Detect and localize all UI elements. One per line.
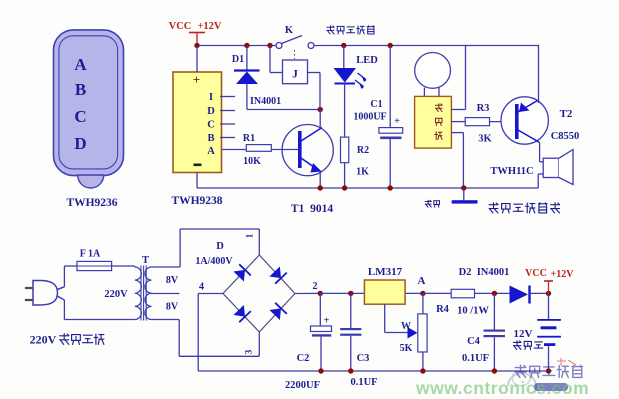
svg-text:C4: C4 <box>467 336 481 347</box>
svg-text:10K: 10K <box>243 156 261 167</box>
svg-text:D1: D1 <box>232 54 244 65</box>
svg-text:+: + <box>193 72 200 87</box>
svg-text:J: J <box>292 69 298 81</box>
svg-text:3: 3 <box>244 349 254 354</box>
svg-text:C: C <box>207 120 215 131</box>
svg-text:+: + <box>394 116 400 127</box>
svg-text:D2 IN4001: D2 IN4001 <box>459 267 510 278</box>
svg-text:B: B <box>207 133 214 144</box>
svg-text:5K: 5K <box>400 343 413 354</box>
svg-text:T2: T2 <box>560 108 573 120</box>
svg-text:K: K <box>285 25 294 36</box>
svg-text:LED: LED <box>356 55 378 66</box>
svg-text:8V: 8V <box>166 302 179 313</box>
svg-text:LM317: LM317 <box>368 266 403 278</box>
svg-text:B: B <box>75 80 86 99</box>
svg-text:12V: 12V <box>514 328 533 340</box>
svg-text:0.1UF: 0.1UF <box>462 353 489 364</box>
svg-text:8V: 8V <box>166 275 179 286</box>
svg-text:www.cntronics.com: www.cntronics.com <box>415 378 589 398</box>
svg-text:R1: R1 <box>243 133 255 144</box>
svg-text:2: 2 <box>313 281 318 292</box>
svg-text:C8550: C8550 <box>551 131 580 142</box>
svg-text:A: A <box>207 146 215 157</box>
svg-text:10 /1W: 10 /1W <box>457 306 489 317</box>
svg-text:A: A <box>74 55 87 74</box>
svg-text:VCC: VCC <box>525 268 547 279</box>
svg-text:+: + <box>324 316 330 327</box>
svg-text:TWH9236: TWH9236 <box>66 197 117 209</box>
svg-text:A: A <box>418 275 426 287</box>
svg-text:+12V: +12V <box>551 269 575 280</box>
svg-text:IN4001: IN4001 <box>250 96 281 107</box>
svg-text:2200UF: 2200UF <box>285 380 320 391</box>
svg-text:D: D <box>216 241 224 252</box>
svg-text:+12V: +12V <box>197 21 221 32</box>
svg-text:4: 4 <box>199 282 204 293</box>
svg-text:C2: C2 <box>297 353 310 364</box>
svg-text:1A/400V: 1A/400V <box>195 256 233 267</box>
svg-text:T: T <box>142 255 149 266</box>
svg-text:220V: 220V <box>104 289 128 300</box>
svg-text:C: C <box>74 107 86 126</box>
svg-text:F 1A: F 1A <box>80 249 101 260</box>
svg-text:0.1UF: 0.1UF <box>350 377 377 388</box>
svg-text:TWH9238: TWH9238 <box>171 195 222 207</box>
svg-text:VCC: VCC <box>169 21 192 32</box>
svg-text:C1: C1 <box>370 99 382 110</box>
svg-text:I: I <box>209 92 213 103</box>
svg-text:1000UF: 1000UF <box>353 112 386 123</box>
svg-text:1: 1 <box>245 233 255 238</box>
svg-text:C3: C3 <box>357 353 370 364</box>
svg-text:220V: 220V <box>30 333 57 347</box>
svg-text:D: D <box>207 106 215 117</box>
svg-text:3K: 3K <box>478 134 492 145</box>
svg-text:TWH11C: TWH11C <box>490 166 533 177</box>
svg-text:1K: 1K <box>356 167 369 178</box>
svg-text:W: W <box>401 321 411 332</box>
svg-text:T1 9014: T1 9014 <box>291 203 333 215</box>
svg-text:R3: R3 <box>477 103 490 114</box>
svg-text:D: D <box>74 134 86 153</box>
svg-text:R4: R4 <box>436 304 450 315</box>
svg-text:R2: R2 <box>357 145 369 156</box>
